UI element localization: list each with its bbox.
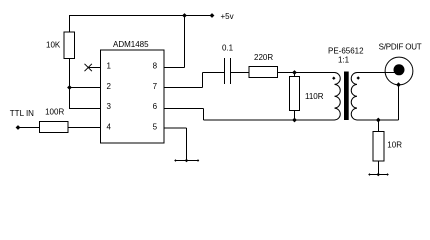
svg-text:0.1: 0.1 <box>222 43 234 52</box>
svg-text:1:1: 1:1 <box>338 55 350 64</box>
svg-text:+5v: +5v <box>221 12 234 21</box>
svg-text:5: 5 <box>153 122 158 131</box>
svg-text:8: 8 <box>153 62 158 71</box>
svg-text:1: 1 <box>107 62 112 71</box>
svg-text:ADM1485: ADM1485 <box>113 40 149 49</box>
svg-text:220R: 220R <box>254 53 273 62</box>
svg-text:PE-65612: PE-65612 <box>328 46 364 55</box>
svg-text:110R: 110R <box>305 92 324 101</box>
svg-text:4: 4 <box>107 122 112 131</box>
svg-text:6: 6 <box>153 102 158 111</box>
svg-text:100R: 100R <box>45 108 64 117</box>
svg-text:7: 7 <box>153 82 158 91</box>
svg-text:3: 3 <box>107 102 112 111</box>
svg-text:10K: 10K <box>46 41 61 50</box>
svg-text:10R: 10R <box>387 140 402 149</box>
svg-text:TTL IN: TTL IN <box>10 109 34 118</box>
svg-text:2: 2 <box>107 82 112 91</box>
svg-text:S/PDIF OUT: S/PDIF OUT <box>379 42 422 51</box>
